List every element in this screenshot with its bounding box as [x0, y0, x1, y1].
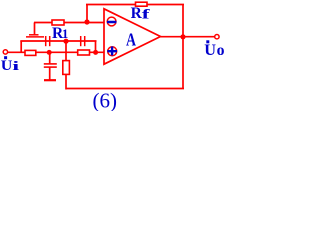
- label Uo overdot: [206, 40, 209, 43]
- label Ui overdot: [4, 56, 7, 59]
- wire row B inverting input: [34, 22, 104, 24]
- op-amp U1 triangle: [104, 9, 161, 64]
- junction dot row D left: [47, 50, 52, 55]
- capacitor C4 top plate: [44, 63, 57, 65]
- svg-text:A: A: [126, 30, 136, 50]
- op-amp plus sign vertical: [111, 47, 113, 56]
- resistor R3 box on row D: [78, 50, 90, 55]
- op-amp inverting minus bar: [107, 21, 116, 24]
- wire output row: [160, 36, 215, 38]
- wire top feedback row A: [86, 4, 184, 6]
- ground bar: [44, 79, 56, 81]
- resistor R4 vertical box branch F: [63, 61, 70, 75]
- op-amp plus sign horizontal: [107, 50, 117, 52]
- wire vertical below resistor R4 to bottom rail: [65, 75, 67, 90]
- wire vertical right feedback column x183: [182, 5, 184, 89]
- junction dot node N1 (inverting input): [84, 19, 89, 24]
- input terminal circle: [3, 50, 7, 54]
- resistor R2 box on row D: [25, 50, 36, 55]
- capacitor C2 left plate: [45, 36, 47, 46]
- wire vertical from node N1 up to row A: [86, 5, 88, 24]
- junction dot output node: [180, 34, 185, 39]
- capacitor C3 left plate: [80, 36, 82, 46]
- svg-text:Rf: Rf: [131, 5, 151, 22]
- wire bottom rail: [66, 88, 184, 90]
- wire vertical left joining row C to row D: [20, 41, 22, 52]
- capacitor C2 right plate: [49, 36, 51, 46]
- wire vertical from row C corner down to row D at x95.5: [95, 41, 97, 52]
- svg-text:R1: R1: [52, 25, 68, 42]
- resistor R1 box: [52, 20, 64, 25]
- wire vertical from capacitor C4 down to ground: [49, 68, 51, 80]
- op-amp inverting input circle: [107, 17, 116, 26]
- junction dot row C midpoint: [63, 39, 68, 44]
- wire vertical drop at x34 to capacitor C1: [34, 23, 36, 35]
- wire row C upper network: [20, 40, 96, 42]
- svg-text:Ui: Ui: [1, 58, 20, 74]
- capacitor C1 top plate: [29, 34, 39, 36]
- op-amp non-inverting input circle: [108, 47, 117, 56]
- wire vertical branch E from row D dot down to capacitor C4: [49, 52, 51, 63]
- junction dot row D right: [93, 50, 98, 55]
- resistor Rf box: [136, 2, 148, 6]
- capacitor C1 bottom plate: [26, 36, 44, 38]
- wire vertical branch F from row C dot down through row D: [65, 41, 67, 61]
- capacitor C3 right plate: [84, 36, 86, 46]
- svg-text:(6): (6): [93, 89, 118, 112]
- output terminal circle: [215, 35, 219, 39]
- capacitor C4 bottom plate: [44, 66, 57, 68]
- wire row D lower network: [8, 51, 104, 53]
